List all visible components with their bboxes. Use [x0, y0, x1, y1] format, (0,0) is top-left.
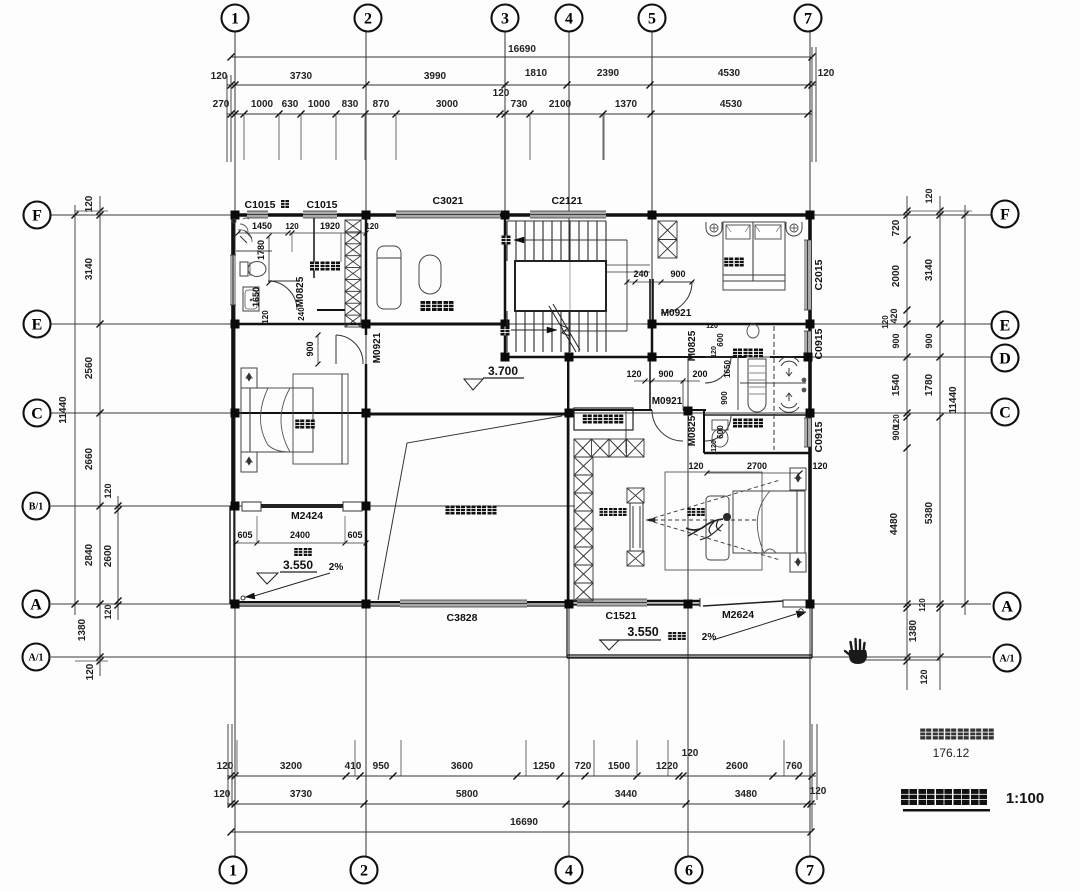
axis bubble C right	[992, 399, 1019, 426]
bed master	[733, 491, 805, 553]
axis line A horizontal	[51, 603, 991, 605]
svg-text:900: 900	[720, 391, 729, 405]
svg-text:830: 830	[342, 99, 359, 110]
svg-text:1780: 1780	[924, 373, 935, 396]
wall grid5 D to corridor	[649, 357, 651, 410]
svg-text:3140: 3140	[84, 257, 95, 280]
svg-text:120: 120	[211, 71, 228, 82]
axis bubble 7 bottom	[797, 857, 824, 884]
title drawing name	[901, 789, 917, 805]
svg-text:1220: 1220	[656, 761, 679, 772]
wall E left wing	[231, 323, 366, 326]
svg-text:1500: 1500	[608, 761, 631, 772]
dims bathroom1 row	[238, 232, 366, 234]
table lounge oval	[419, 255, 441, 294]
svg-text:240: 240	[633, 269, 648, 279]
wall closet west	[625, 410, 627, 453]
bed bedroom1	[241, 388, 313, 452]
svg-text:M2624: M2624	[722, 609, 754, 621]
axis line F horizontal	[51, 214, 991, 216]
svg-text:7: 7	[804, 10, 812, 27]
axis line D horizontal	[620, 356, 991, 358]
svg-text:7: 7	[806, 862, 814, 879]
stair up arrow	[511, 329, 547, 331]
knob circles bath	[802, 378, 807, 383]
label bathroom1 weishengjian	[310, 262, 319, 271]
svg-text:F: F	[1000, 206, 1010, 223]
svg-text:3: 3	[501, 10, 509, 27]
wall F north exterior	[231, 213, 813, 217]
svg-text:730: 730	[511, 99, 528, 110]
svg-text:1250: 1250	[533, 761, 556, 772]
axis bubble 4 top	[556, 5, 583, 32]
label bedroom1 zhuwo	[295, 420, 304, 429]
svg-text:605: 605	[237, 530, 252, 540]
axis bubble A right	[994, 593, 1021, 620]
svg-text:3140: 3140	[924, 258, 935, 281]
svg-text:4530: 4530	[718, 68, 741, 79]
wall C corridor	[568, 409, 652, 411]
door M0825 bathroom1 arc	[268, 280, 297, 282]
axis grid line 4 vertical	[568, 32, 570, 856]
nightstand master lower	[790, 553, 806, 572]
svg-text:B/1: B/1	[29, 501, 43, 512]
dims corridor 240 900	[627, 281, 694, 283]
door M0921 bedroom2 arc	[661, 281, 692, 283]
svg-text:2840: 2840	[84, 543, 95, 566]
svg-text:600: 600	[716, 425, 725, 439]
svg-text:900: 900	[658, 369, 673, 379]
svg-text:600: 600	[716, 333, 725, 347]
svg-text:900: 900	[305, 341, 315, 356]
wall E right wing	[652, 323, 810, 326]
svg-text:3.550: 3.550	[283, 558, 313, 572]
svg-text:1:100: 1:100	[1006, 790, 1044, 807]
axis bubble 1 top	[222, 5, 249, 32]
bottom dimension row grid spans	[227, 803, 816, 805]
svg-text:M0825: M0825	[687, 330, 698, 361]
svg-text:11440: 11440	[58, 396, 69, 424]
balcony right south edge	[567, 654, 812, 656]
label lounge xiuxianqu	[421, 301, 431, 311]
svg-text:630: 630	[282, 99, 299, 110]
wall grid4 corridor piece	[567, 357, 569, 413]
svg-text:900: 900	[924, 333, 934, 348]
svg-text:2000: 2000	[891, 264, 902, 287]
svg-text:M0825: M0825	[295, 276, 306, 307]
sofa lounge	[377, 246, 401, 309]
wall C bedroom1 south	[231, 412, 366, 414]
svg-text:760: 760	[786, 761, 803, 772]
svg-text:120: 120	[918, 598, 927, 612]
wall west balcony	[229, 506, 231, 604]
svg-text:2700: 2700	[747, 461, 767, 471]
svg-text:A/1: A/1	[1000, 653, 1015, 664]
door M0921 master arc	[652, 410, 683, 441]
svg-text:870: 870	[373, 99, 390, 110]
wall C void north	[366, 413, 569, 416]
wall bathroom1 partition horizontal	[236, 250, 272, 252]
svg-text:120: 120	[818, 68, 835, 79]
svg-text:2%: 2%	[702, 632, 717, 643]
door M0825 bath lower arc	[705, 414, 731, 416]
stair down path	[514, 239, 627, 241]
wall grid2 vertical upper	[365, 215, 368, 335]
wall bathroom1 partition vertical	[313, 218, 315, 278]
slope arrow right balcony	[713, 614, 796, 640]
svg-text:120: 120	[103, 604, 113, 619]
svg-text:120: 120	[365, 222, 379, 231]
svg-text:3200: 3200	[280, 761, 303, 772]
dims corridor lower 120 900 200	[634, 380, 700, 382]
svg-text:2100: 2100	[549, 99, 572, 110]
svg-text:C2121: C2121	[552, 195, 583, 207]
left inner dimension chain balcony	[117, 496, 119, 620]
svg-text:5: 5	[648, 10, 656, 27]
svg-text:2600: 2600	[726, 761, 749, 772]
svg-text:1: 1	[231, 10, 239, 27]
nightstand bedroom1 lower	[241, 452, 257, 472]
wall grid6 bath west piece	[703, 410, 705, 453]
axis bubble B/1 left	[23, 493, 50, 520]
axis bubble A/1 left	[23, 644, 50, 671]
right dimension chain inner	[906, 196, 908, 690]
spray symbol lower bath	[781, 403, 797, 408]
stair break line	[549, 306, 576, 352]
wall grid4 master west	[567, 413, 570, 604]
svg-text:3.700: 3.700	[488, 364, 518, 378]
svg-text:4: 4	[565, 862, 573, 879]
window B/1 right piece	[343, 502, 362, 511]
svg-text:1780: 1780	[256, 240, 266, 260]
svg-text:A/1: A/1	[29, 652, 44, 663]
spray symbol upper bath	[781, 361, 797, 366]
axis bubble 2 top	[355, 5, 382, 32]
axis line B/1 horizontal	[51, 505, 575, 507]
wall grid5 vertical bedroom west	[649, 279, 651, 324]
axis grid line 7 vertical	[809, 32, 811, 856]
chaise master	[706, 496, 729, 560]
svg-text:120: 120	[919, 669, 929, 684]
svg-text:C: C	[31, 405, 43, 422]
svg-text:2: 2	[364, 10, 372, 27]
svg-text:2390: 2390	[597, 68, 620, 79]
svg-text:240: 240	[297, 307, 306, 321]
axis bubble 6 bottom	[676, 857, 703, 884]
axis bubble A/1 right	[994, 645, 1021, 672]
svg-text:4530: 4530	[720, 99, 743, 110]
axis grid line 2 vertical	[365, 32, 367, 856]
title area label	[920, 729, 931, 740]
svg-text:3990: 3990	[424, 71, 447, 82]
window C1521	[577, 599, 647, 606]
top dimension row 16690	[231, 56, 812, 58]
svg-text:M0921: M0921	[372, 332, 383, 363]
svg-text:120: 120	[711, 440, 718, 452]
axis bubble 3 top	[492, 5, 519, 32]
columns black squares	[231, 211, 240, 220]
svg-text:2%: 2%	[329, 562, 344, 573]
hatch band left wing wardrobe	[345, 220, 361, 327]
label closet master	[600, 508, 608, 516]
label void keting	[446, 506, 455, 515]
svg-text:2660: 2660	[84, 447, 95, 470]
label bathroom lower	[733, 419, 742, 428]
stair down label	[502, 236, 511, 245]
shower spray bathroom1	[240, 224, 248, 232]
nightstand bedroom2 left	[706, 222, 722, 236]
axis line C horizontal	[51, 412, 991, 414]
svg-text:3440: 3440	[615, 789, 638, 800]
wall grid3 stair west	[504, 215, 507, 357]
wall west exterior	[231, 215, 235, 506]
svg-text:2600: 2600	[103, 544, 114, 567]
svg-text:2400: 2400	[290, 530, 310, 540]
svg-text:A: A	[1001, 598, 1013, 615]
label utility shaft	[583, 415, 592, 424]
viewing zone rect master	[665, 472, 762, 570]
svg-text:2: 2	[360, 862, 368, 879]
wall bath partition vertical	[737, 357, 739, 410]
svg-text:6: 6	[685, 862, 693, 879]
bathroom dim drop lines	[291, 233, 293, 252]
axis bubble F right	[992, 201, 1019, 228]
svg-text:1650: 1650	[723, 360, 732, 378]
svg-text:410: 410	[345, 761, 362, 772]
svg-text:120: 120	[217, 761, 234, 772]
toilet bathroom1	[240, 262, 248, 276]
desk bedroom1	[293, 374, 348, 464]
nightstand bedroom1 upper	[241, 368, 257, 388]
svg-text:900: 900	[670, 269, 685, 279]
svg-text:2560: 2560	[84, 356, 95, 379]
wall A south mid	[366, 601, 569, 603]
svg-text:1000: 1000	[308, 99, 331, 110]
door M2424 band	[261, 504, 343, 508]
svg-text:11440: 11440	[948, 386, 959, 414]
svg-text:1650: 1650	[251, 287, 261, 307]
label master zhuwo small	[687, 508, 695, 516]
svg-text:120: 120	[261, 310, 270, 324]
hand symbol	[845, 639, 865, 656]
svg-text:1380: 1380	[77, 618, 88, 641]
axis bubble F left	[24, 202, 51, 229]
wall E lounge	[366, 323, 505, 326]
wall lower bath north	[704, 414, 810, 416]
svg-text:1: 1	[229, 862, 237, 879]
svg-text:M0825: M0825	[687, 415, 698, 446]
svg-text:C1015: C1015	[245, 199, 276, 211]
window C2015 east	[804, 240, 811, 310]
svg-text:C: C	[999, 404, 1011, 421]
hatch band master closet horizontal	[574, 439, 644, 457]
svg-text:176.12: 176.12	[933, 746, 970, 760]
axis bubble E left	[24, 311, 51, 338]
person figure master	[723, 513, 731, 521]
svg-text:M0921: M0921	[652, 396, 683, 407]
axis grid line 5 vertical	[651, 32, 653, 357]
svg-text:F: F	[32, 207, 42, 224]
svg-text:M2424: M2424	[291, 510, 323, 522]
bottom dimension row 16690	[231, 831, 811, 833]
svg-text:720: 720	[891, 219, 902, 236]
utility shaft room	[574, 408, 633, 430]
dims balcony left 605 2400 605	[236, 542, 366, 544]
svg-text:120: 120	[688, 461, 703, 471]
axis line E horizontal	[51, 323, 991, 325]
stair treads upper flight	[506, 221, 508, 261]
top dimension row grid spans	[227, 84, 816, 86]
right dimension chain middle	[939, 196, 941, 690]
sight lines dashed master	[647, 480, 780, 520]
top dimension extension lines	[243, 114, 245, 160]
window C3021	[396, 211, 500, 218]
pillows bedroom2	[726, 225, 750, 239]
svg-text:120: 120	[285, 222, 299, 231]
slope arrow left balcony	[254, 573, 330, 596]
svg-text:3730: 3730	[290, 71, 313, 82]
svg-text:3480: 3480	[735, 789, 758, 800]
label balcony right	[668, 632, 676, 640]
wall closet1 south	[317, 309, 345, 311]
axis grid line 1 vertical	[234, 32, 236, 856]
label bedroom2 kewo	[724, 258, 733, 267]
svg-text:1450: 1450	[252, 221, 272, 231]
axis bubble D right	[992, 345, 1019, 372]
right dimension chain outer 11440	[964, 205, 966, 615]
wall bath divider	[740, 382, 806, 384]
svg-text:950: 950	[373, 761, 390, 772]
toilet lower bath	[712, 420, 728, 430]
svg-text:1000: 1000	[251, 99, 274, 110]
axis bubble 1 bottom	[220, 857, 247, 884]
hatch band bedroom2 wardrobe	[658, 221, 677, 258]
window C1015 b	[303, 211, 337, 218]
wall A south right	[567, 600, 812, 603]
svg-text:C3828: C3828	[447, 612, 478, 624]
window C0915 lower east	[804, 418, 811, 447]
nightstand master upper	[790, 468, 806, 490]
svg-text:120: 120	[812, 461, 827, 471]
svg-text:3600: 3600	[451, 761, 474, 772]
wall A south left	[231, 601, 366, 603]
wall east exterior	[808, 215, 812, 604]
wall grid5 E to D	[651, 324, 654, 357]
sink bathroom1	[243, 287, 259, 311]
window C3828	[400, 600, 527, 607]
svg-text:C0915: C0915	[813, 328, 825, 359]
dim 900 door bedroom1	[317, 335, 319, 364]
stair treads lower flight	[506, 311, 508, 352]
axis bubble C left	[24, 400, 51, 427]
svg-text:420: 420	[889, 308, 899, 323]
svg-text:120: 120	[682, 748, 699, 759]
stair corridor extension lines 240	[607, 264, 650, 266]
svg-text:200: 200	[692, 369, 707, 379]
axis bubble 5 top	[639, 5, 666, 32]
axis bubble 2 bottom	[351, 857, 378, 884]
svg-text:120: 120	[706, 323, 718, 330]
window C0915 upper east	[804, 331, 811, 356]
stair up label	[501, 327, 510, 336]
svg-text:4: 4	[565, 10, 573, 27]
svg-text:120: 120	[103, 483, 113, 498]
stair landing	[515, 261, 606, 311]
svg-text:900: 900	[891, 425, 901, 440]
nightstand bedroom2 right	[786, 222, 802, 236]
svg-text:C1015: C1015	[307, 199, 338, 211]
window west bath	[230, 255, 236, 305]
svg-text:120: 120	[84, 195, 95, 212]
svg-text:4480: 4480	[889, 512, 900, 535]
window C1015 a	[247, 211, 268, 218]
axis line through landing	[569, 262, 571, 310]
svg-text:120: 120	[924, 188, 934, 203]
wall master north west piece	[626, 409, 652, 411]
wall grid2 vertical lower	[365, 364, 368, 604]
svg-text:D: D	[999, 350, 1011, 367]
svg-text:5380: 5380	[924, 501, 935, 524]
dashed partition bath	[773, 326, 775, 450]
svg-text:E: E	[32, 316, 43, 333]
svg-text:C1521: C1521	[606, 610, 637, 622]
axis line A/1 horizontal	[51, 656, 991, 658]
axis bubble E right	[992, 312, 1019, 339]
sink bath upper oval	[747, 324, 759, 338]
svg-text:16690: 16690	[510, 817, 538, 828]
svg-text:3730: 3730	[290, 789, 313, 800]
dims master 120 2700 120	[707, 472, 800, 474]
balcony right west edge	[566, 604, 568, 658]
svg-text:C0915: C0915	[813, 421, 825, 452]
axis grid line 6 vertical	[687, 357, 689, 856]
svg-text:1370: 1370	[615, 99, 638, 110]
label bathroom upper	[733, 349, 742, 358]
svg-text:M0921: M0921	[661, 308, 692, 319]
svg-text:1810: 1810	[525, 68, 548, 79]
svg-text:120: 120	[711, 346, 718, 358]
svg-text:720: 720	[575, 761, 592, 772]
door M2624 sliding leaf	[700, 598, 808, 607]
svg-text:3000: 3000	[436, 99, 459, 110]
svg-text:3.550: 3.550	[627, 625, 658, 639]
left dimension chain outer 11440	[74, 205, 76, 615]
svg-text:C2015: C2015	[813, 259, 825, 290]
door M0921 bedroom1 arc	[335, 335, 337, 364]
axis bubble 7 top	[795, 5, 822, 32]
left dimension chain main	[99, 196, 101, 676]
svg-text:16690: 16690	[508, 44, 536, 55]
label C1015 box glyph	[281, 200, 289, 208]
svg-text:A: A	[30, 596, 42, 613]
wall master north	[704, 452, 810, 455]
bottom dimension row details	[227, 775, 816, 777]
svg-text:120: 120	[493, 88, 510, 99]
wall D stair south	[505, 356, 652, 359]
balcony right east edge	[811, 604, 813, 658]
axis bubble A left	[23, 591, 50, 618]
window B/1 left piece	[242, 502, 261, 511]
svg-text:120: 120	[626, 369, 641, 379]
window C2121	[530, 211, 606, 218]
wall master north east piece	[683, 409, 706, 411]
bottom dimension extension lines	[236, 740, 238, 776]
top dimension row details	[227, 113, 812, 115]
svg-text:900: 900	[891, 333, 901, 348]
tv unit master	[627, 488, 644, 503]
bed bedroom2	[723, 222, 785, 290]
svg-text:1380: 1380	[908, 619, 919, 642]
